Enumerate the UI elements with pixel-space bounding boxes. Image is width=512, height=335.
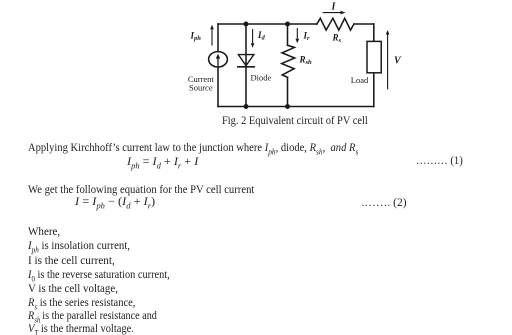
svg-text:V: V [394,56,402,67]
wire: left branch upper [217,24,219,52]
arrow Iph (up) [210,25,214,45]
load (rectangle) [367,41,381,72]
svg-text:Ir: Ir [303,31,311,43]
caption: Fig. 2 Equivalent circuit of PV cell [222,115,368,127]
wire: top rail left segment [218,23,317,25]
diode symbol [238,55,254,67]
junction dot top-left (diode node) [244,22,249,27]
svg-text:Rsh: Rsh [299,55,313,67]
svg-text:Load: Load [351,75,369,85]
junction dot top-right (Rsh node) [285,22,290,27]
equation 2 [75,196,155,208]
svg-text:I: I [331,2,337,13]
svg-text:Rs: Rs [332,33,342,45]
svg-text:Diode: Diode [251,73,272,83]
svg-text:Id: Id [257,30,266,42]
paragraph 1 [28,142,358,154]
wire: Rsh branch upper stub [287,24,289,45]
junction dot bottom-left [244,104,249,109]
resistor Rsh (zigzag) [282,45,295,77]
arrow Ir (down) [296,29,300,44]
equation 1 number [416,155,463,167]
where list [28,225,60,237]
wire: right branch upper [373,24,375,41]
svg-text:Source: Source [189,83,213,93]
resistor Rs (zigzag) [317,18,354,30]
wire: top rail right segment (Rs to right corner) [354,23,374,25]
junction dot bottom-right [285,104,290,109]
wire: right branch lower [373,73,375,107]
arrow I (right, above Rs) [323,11,345,15]
arrow Id (down) [251,30,255,48]
arrow V (up, right side) [386,30,390,89]
paragraph 2 [28,184,254,196]
svg-text:Iph: Iph [190,31,202,43]
wire: left branch lower [217,67,219,107]
wire: diode branch [245,24,247,107]
equation 2 number [362,197,407,209]
wire: Rsh branch lower stub [287,77,289,106]
current source symbol (circle with up arrow) [209,52,228,67]
equation 1 [127,156,198,168]
wire: bottom rail [218,106,374,108]
